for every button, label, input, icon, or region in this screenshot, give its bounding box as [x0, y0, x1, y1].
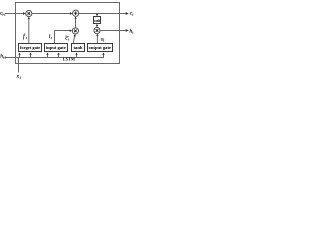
output gate box: [88, 44, 113, 52]
svg-text:tanh: tanh: [94, 18, 101, 23]
arrowhead into tanh unit: [96, 14, 98, 16]
arrowhead h_t: [126, 29, 129, 32]
label o_t: [101, 37, 105, 43]
svg-text:tanh: tanh: [74, 45, 83, 50]
label c_t: [130, 10, 135, 16]
wire output gate to M3: [96, 36, 98, 44]
multiplier M2 (input product): [72, 28, 78, 34]
svg-text:forget gate: forget gate: [20, 45, 40, 50]
node branch to tanh: [96, 13, 98, 16]
wire forget gate up to M1: [28, 19, 30, 43]
adder P1 (+): [73, 10, 79, 16]
wire M2 up to adder: [75, 19, 77, 28]
svg-text:output gate: output gate: [89, 45, 112, 50]
svg-text:input gate: input gate: [46, 45, 66, 50]
arrowhead into M2 left: [70, 30, 73, 32]
svg-text:LSTM: LSTM: [63, 57, 76, 62]
multiplier M1 (forget product): [26, 10, 32, 16]
bus arrow into tanh gate: [75, 53, 77, 58]
arrowhead up into M2 bottom: [74, 34, 76, 36]
label i_t: [49, 34, 53, 40]
input gate box: [45, 44, 68, 52]
arrowhead into M3: [96, 25, 98, 27]
wire candidate (tanh gate) diagonal into M2: [73, 36, 75, 44]
forget gate box: [19, 44, 42, 52]
wire adder to c_t output: [79, 13, 126, 15]
svg-text:t-1: t-1: [2, 12, 6, 16]
tanh gate box: [72, 44, 85, 52]
arrowhead bus corner up into output gate: [102, 53, 104, 55]
wire c(t-1) input line: [5, 13, 24, 15]
label h_t: [130, 28, 135, 34]
svg-text:t-1: t-1: [3, 55, 7, 59]
multiplier M3 (output product): [94, 27, 100, 33]
label c~_t: [65, 36, 69, 42]
wire x_t input: [18, 58, 20, 73]
label c(t-1): [0, 11, 6, 16]
arrowhead into adder: [70, 12, 73, 14]
arrowhead up into M3: [96, 34, 98, 36]
bus arrow into input gate right: [57, 53, 59, 58]
wire h(t-1) bus: [5, 55, 103, 58]
label x_t: [16, 74, 22, 80]
arrowhead up into M1: [28, 17, 30, 19]
bus arrow into input gate left: [46, 53, 48, 58]
label LSTM: [63, 57, 76, 62]
svg-text:t: t: [68, 38, 69, 42]
arrowhead c_t: [126, 12, 129, 15]
label h(t-1): [0, 53, 6, 59]
label f_t: [23, 33, 28, 40]
bus arrow into forget gate left: [18, 53, 20, 58]
svg-text:t: t: [103, 38, 104, 42]
bus arrow into forget gate right: [29, 53, 31, 58]
wire M3 to h_t output: [100, 30, 126, 32]
arrowhead up into adder: [74, 17, 76, 19]
tanh unit (cell output squashing): [94, 17, 101, 24]
arrowhead into multiplier M1: [23, 12, 26, 14]
wire M1 to adder: [32, 13, 71, 15]
LSTM cell outer box: [16, 3, 120, 64]
wire input gate L-path into M2: [55, 31, 71, 44]
wire tanh to multiplier M3: [96, 24, 98, 26]
